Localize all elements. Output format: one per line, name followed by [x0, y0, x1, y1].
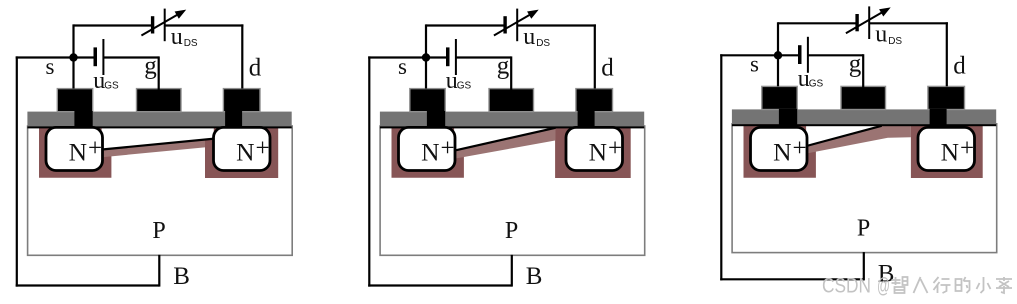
svg-text:u: u — [875, 22, 887, 48]
svg-text:d: d — [953, 52, 966, 79]
svg-text:+: + — [88, 135, 102, 162]
svg-text:CSDN: CSDN — [822, 275, 871, 298]
svg-text:P: P — [857, 215, 870, 241]
svg-text:DS: DS — [536, 38, 550, 49]
svg-text:g: g — [497, 53, 510, 80]
svg-text:u: u — [523, 24, 535, 50]
svg-text:N: N — [589, 137, 607, 166]
svg-text:g: g — [144, 53, 157, 80]
svg-text:N: N — [421, 137, 439, 166]
svg-text:+: + — [441, 135, 455, 162]
svg-text:N: N — [69, 137, 87, 166]
svg-text:+: + — [256, 135, 270, 162]
svg-text:g: g — [849, 50, 862, 77]
svg-text:B: B — [173, 263, 190, 290]
svg-text:s: s — [750, 52, 759, 77]
svg-text:N: N — [773, 137, 791, 166]
svg-text:s: s — [398, 54, 407, 79]
svg-text:+: + — [793, 135, 807, 162]
svg-text:d: d — [249, 55, 262, 82]
svg-text:B: B — [526, 263, 543, 290]
svg-text:DS: DS — [888, 36, 902, 47]
svg-text:P: P — [152, 218, 165, 244]
svg-text:P: P — [505, 218, 518, 244]
svg-text:GS: GS — [104, 81, 119, 92]
svg-text:d: d — [601, 55, 614, 82]
svg-text:+: + — [960, 135, 974, 162]
svg-text:u: u — [171, 24, 183, 50]
svg-text:GS: GS — [457, 81, 472, 92]
svg-text:N: N — [941, 137, 959, 166]
svg-text:s: s — [46, 54, 55, 79]
svg-text:DS: DS — [184, 38, 198, 49]
svg-text:GS: GS — [809, 78, 824, 89]
svg-text:N: N — [236, 137, 254, 166]
svg-text:+: + — [608, 135, 622, 162]
svg-text:@: @ — [877, 275, 890, 298]
